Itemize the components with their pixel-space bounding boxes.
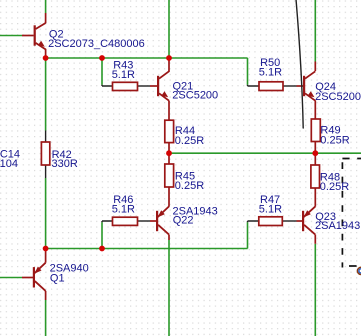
svg-text:Q1: Q1 — [50, 273, 65, 285]
svg-text:Q22: Q22 — [173, 215, 194, 227]
svg-text:5.1R: 5.1R — [259, 66, 282, 78]
svg-text:0.25R: 0.25R — [175, 180, 204, 192]
svg-text:330R: 330R — [52, 158, 78, 170]
svg-text:5.1R: 5.1R — [112, 69, 135, 81]
svg-text:2SC5200: 2SC5200 — [315, 91, 361, 103]
svg-text:2SA1943: 2SA1943 — [315, 220, 360, 232]
svg-text:0.25R: 0.25R — [175, 135, 204, 147]
svg-text:2SC5200: 2SC5200 — [172, 89, 218, 101]
svg-text:2SC2073_C480006: 2SC2073_C480006 — [48, 38, 145, 50]
svg-text:104: 104 — [0, 158, 18, 170]
svg-text:0.25R: 0.25R — [320, 134, 349, 146]
svg-text:5.1R: 5.1R — [259, 204, 282, 216]
svg-text:5.1R: 5.1R — [112, 203, 135, 215]
svg-text:0.25R: 0.25R — [320, 181, 349, 193]
